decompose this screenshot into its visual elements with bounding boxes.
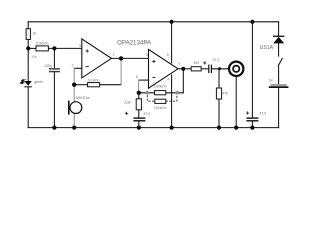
svg-text:3: 3: [79, 44, 81, 48]
svg-text:US1A: US1A: [260, 45, 274, 51]
svg-text:1k: 1k: [33, 32, 37, 36]
svg-text:47,0: 47,0: [213, 58, 220, 62]
svg-text:47,0: 47,0: [259, 111, 266, 115]
svg-text:OPA2134PA: OPA2134PA: [117, 39, 152, 46]
svg-text:+2v: +2v: [31, 55, 37, 59]
svg-text:100k1%: 100k1%: [154, 106, 167, 110]
svg-text:100k1%: 100k1%: [154, 84, 167, 88]
svg-text:47,0: 47,0: [143, 112, 150, 116]
svg-text:3,3k: 3,3k: [124, 101, 131, 105]
svg-text:4: 4: [167, 78, 169, 82]
svg-text:7: 7: [178, 62, 180, 66]
svg-text:MIKE1a: MIKE1a: [76, 96, 90, 100]
svg-text:3,147k: 3,147k: [88, 79, 99, 83]
svg-text:9v: 9v: [269, 79, 273, 83]
svg-text:300: 300: [193, 61, 199, 65]
svg-text:5: 5: [146, 53, 148, 57]
svg-text:100n: 100n: [44, 64, 52, 68]
svg-text:5,9k1%: 5,9k1%: [36, 41, 48, 45]
svg-text:2: 2: [72, 64, 74, 68]
svg-text:1: 1: [113, 52, 115, 56]
svg-text:8: 8: [167, 53, 169, 57]
svg-text:green: green: [34, 80, 43, 84]
svg-text:47k: 47k: [222, 92, 228, 96]
svg-text:6: 6: [136, 75, 138, 79]
